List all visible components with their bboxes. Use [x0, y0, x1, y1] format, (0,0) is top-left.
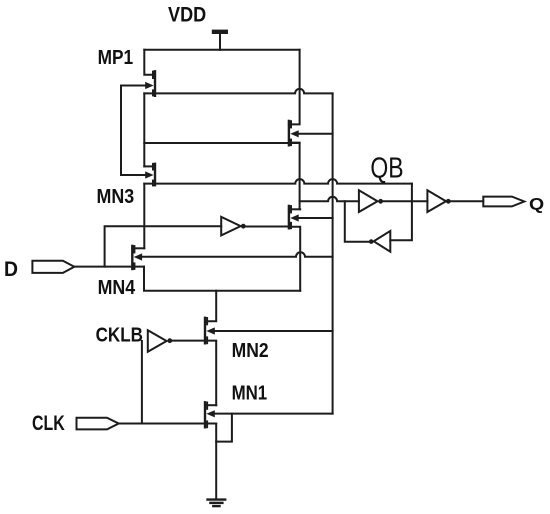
inverter CKLB — [148, 330, 172, 352]
port D — [32, 261, 74, 273]
wire QB drop to feedback inverter input — [390, 184, 412, 241]
wire MN3 drain stub — [144, 165, 155, 167]
svg-text:CKLB: CKLB — [96, 324, 143, 346]
wire CKLB inverter output to MN2 bar — [172, 340, 205, 342]
wire keeper gate to right vertical — [298, 217, 333, 219]
wire MP1 gate — [121, 85, 146, 87]
port Q — [483, 197, 524, 207]
svg-text:QB: QB — [370, 153, 403, 185]
wire gate tie MP1-MN3 — [120, 86, 122, 176]
wire MN3 source / node QB rightward with hops — [144, 179, 412, 184]
svg-text:D: D — [4, 258, 18, 281]
inverter U1 output stage — [359, 190, 383, 212]
wire MP2 gate to right vertical — [298, 133, 333, 135]
transistor MN2 — [205, 318, 215, 344]
wire MN4 source down and right — [144, 267, 300, 291]
wire MP1 drain from rail — [144, 50, 155, 75]
wire keeper source stub down — [289, 227, 300, 291]
wire MN1 gate to right vertical — [214, 413, 333, 415]
wire feedback output to inv1 input — [345, 201, 369, 242]
wire right vertical from MP1 source node — [332, 93, 334, 413]
wire MP1 source down to MN3 drain — [143, 93, 145, 166]
wire mid inverter output to keeper bar — [246, 226, 289, 228]
inverter U2 output stage — [427, 190, 450, 212]
wire MN1 drain stub — [205, 404, 216, 406]
wire MN3 gate — [121, 174, 146, 176]
wire MN3 source down to MN4 drain — [143, 184, 145, 249]
wire MP2 source stub down — [289, 143, 300, 210]
wire MP2 drain stub up to rail — [289, 50, 300, 125]
wire MN2 gate to right vertical — [214, 330, 333, 332]
inverter mid (to keeper source) — [221, 217, 246, 236]
wire top rail — [144, 49, 299, 51]
wire D input — [74, 266, 144, 268]
wire MN4 gate rightward with hop — [141, 252, 333, 257]
wire inv1 to inv2 — [383, 200, 427, 202]
wire MN4 drain stub — [132, 247, 144, 249]
transistor MN3 — [145, 164, 155, 186]
wire inverter1 input from tap with hop — [300, 197, 359, 202]
wire MN2 drain riser — [205, 291, 216, 321]
VDD supply symbol — [212, 30, 228, 50]
svg-text:CLK: CLK — [32, 412, 65, 435]
svg-text:VDD: VDD — [168, 4, 206, 27]
wire CKLB inverter input from CLK — [141, 341, 143, 424]
wire ground drop — [215, 442, 217, 500]
wire CLK input — [119, 423, 217, 425]
wire inv2 to Q port — [451, 200, 484, 202]
transistor lower-right keeper — [289, 206, 299, 228]
transistor MN4 — [132, 246, 142, 269]
svg-text:MN4: MN4 — [98, 277, 136, 299]
wire MP1 source rightward with hop over x=299.6 — [144, 89, 332, 94]
wire mid inverter input — [105, 226, 222, 266]
wire keeper drain stub (tap of inverter chain input) — [289, 208, 300, 210]
svg-text:MN1: MN1 — [232, 382, 268, 404]
ground — [208, 500, 226, 507]
transistor MP2 upper-right — [289, 121, 299, 145]
svg-text:MN2: MN2 — [232, 340, 269, 362]
transistor MN1 — [205, 402, 215, 427]
port CLK — [77, 418, 119, 430]
svg-text:MP1: MP1 — [98, 47, 134, 69]
svg-text:Q: Q — [529, 195, 544, 214]
svg-text:MN3: MN3 — [97, 186, 135, 208]
wire branch to upper-right transistor source — [144, 142, 299, 144]
wire MN2 source stub down — [205, 341, 216, 406]
wire MN1 source-gate step — [216, 414, 232, 442]
transistor MP1 — [145, 71, 155, 96]
inverter U3 feedback (points left) — [369, 231, 390, 252]
